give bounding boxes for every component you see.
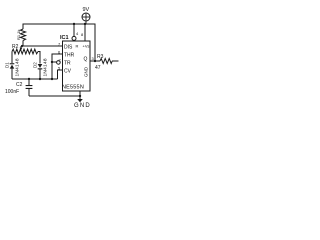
svg-text:Q: Q bbox=[84, 57, 88, 63]
svg-text:3: 3 bbox=[92, 56, 95, 61]
svg-text:R: R bbox=[76, 44, 79, 49]
svg-text:NE555N: NE555N bbox=[62, 85, 84, 91]
svg-text:4: 4 bbox=[76, 31, 79, 36]
svg-text:+Vs: +Vs bbox=[83, 44, 90, 49]
svg-text:1N4148: 1N4148 bbox=[43, 58, 49, 76]
svg-text:GND: GND bbox=[84, 66, 89, 77]
svg-text:CV: CV bbox=[64, 69, 72, 75]
svg-text:100nF: 100nF bbox=[5, 89, 19, 95]
svg-text:TR: TR bbox=[64, 61, 71, 67]
svg-text:8: 8 bbox=[81, 32, 84, 37]
svg-text:DIS: DIS bbox=[64, 45, 73, 51]
svg-text:47: 47 bbox=[95, 65, 101, 71]
svg-text:C2: C2 bbox=[16, 82, 23, 88]
svg-text:D2: D2 bbox=[33, 62, 38, 68]
svg-text:D1: D1 bbox=[5, 62, 10, 68]
svg-text:9V: 9V bbox=[83, 7, 90, 13]
svg-text:R3: R3 bbox=[97, 54, 104, 60]
svg-text:R2: R2 bbox=[12, 44, 19, 50]
svg-text:IC1: IC1 bbox=[60, 35, 69, 41]
svg-text:GND: GND bbox=[74, 103, 91, 108]
svg-text:1N4148: 1N4148 bbox=[15, 58, 21, 76]
svg-text:R1 1k: R1 1k bbox=[16, 30, 21, 40]
svg-text:THR: THR bbox=[64, 53, 75, 59]
svg-text:2: 2 bbox=[59, 58, 62, 63]
